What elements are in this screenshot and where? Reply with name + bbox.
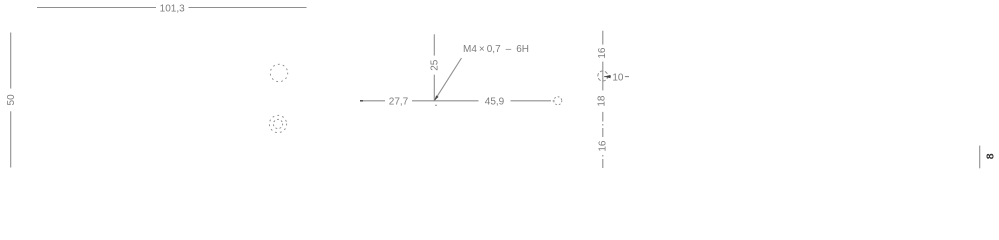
- dimension line 25 (vertical to junction): [433, 34, 435, 100]
- leader arrowhead at junction: [434, 95, 438, 100]
- label 45,9: [479, 94, 511, 108]
- svg-text:25: 25: [430, 59, 441, 71]
- leader line for 10: [604, 76, 629, 78]
- hole circle bottom inner (dashed): [273, 119, 282, 128]
- centerline (right dimension chain, lower dash-dot part): [602, 113, 604, 170]
- dimension line 27,7 / 45,9 (middle horizontal): [360, 100, 551, 102]
- svg-text:16: 16: [598, 140, 609, 152]
- short vertical line bottom right: [979, 146, 981, 169]
- hole circle bottom outer (dashed): [269, 115, 286, 132]
- svg-text:16: 16: [597, 47, 608, 59]
- label 50: [5, 89, 17, 112]
- label 10: [611, 71, 625, 84]
- label 16 (top of chain): [595, 45, 608, 62]
- label M4 x 0,7 - 6H: [461, 41, 588, 57]
- svg-text:10: 10: [612, 72, 624, 83]
- svg-text:50: 50: [6, 94, 17, 106]
- centerline (right dimension chain, upper solid part): [602, 31, 604, 113]
- leader line to M4 label: [434, 58, 461, 101]
- arrowhead for 10 (pointing left): [604, 75, 611, 78]
- short centerline dash after 45,9 line end: [553, 100, 555, 102]
- label 25: [429, 56, 441, 75]
- hole circle top (dashed): [270, 64, 287, 81]
- svg-text:101,3: 101,3: [160, 4, 185, 15]
- label 18: [595, 90, 607, 112]
- dimension line 50 (left vertical): [10, 33, 12, 168]
- svg-text:27,7: 27,7: [389, 96, 409, 107]
- label 16 (bottom of chain): [596, 138, 609, 155]
- tick at left end of middle dimension line: [360, 100, 363, 102]
- svg-text:45,9: 45,9: [485, 96, 505, 107]
- svg-text:M4 × 0,7 – 6H: M4 × 0,7 – 6H: [463, 44, 529, 55]
- label 8 (bottom right): [984, 151, 996, 163]
- dashed hole circle on centerline: [598, 71, 608, 81]
- svg-text:8: 8: [984, 153, 996, 159]
- dimension line 101,3 (top horizontal): [37, 7, 307, 9]
- label 101,3: [156, 1, 189, 15]
- point below junction: [435, 105, 437, 107]
- svg-text:18: 18: [596, 95, 607, 107]
- label 27,7: [385, 93, 412, 108]
- small dotted hole circle at right end of 45,9: [554, 97, 562, 105]
